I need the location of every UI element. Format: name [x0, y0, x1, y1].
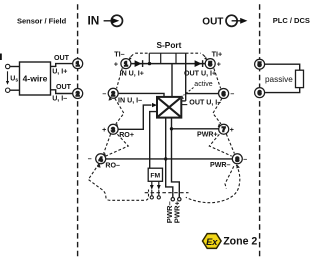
socket contact right pin: [178, 198, 181, 201]
dashed option 5-6: [214, 68, 221, 88]
supply terminal circle bottom: [6, 88, 10, 92]
stub converter right: [181, 104, 187, 106]
TI+ arrow: [203, 54, 208, 60]
svg-text:OUT U, I–: OUT U, I–: [189, 99, 221, 107]
svg-text:OUT: OUT: [56, 83, 72, 91]
arrow hook into terminal 2: [109, 97, 113, 101]
terminal circle module 5: [205, 59, 215, 69]
svg-text:4-wire: 4-wire: [23, 74, 48, 84]
diode D1: [135, 60, 143, 67]
svg-text:+: +: [217, 61, 221, 68]
svg-text:5: 5: [208, 61, 212, 68]
dashed option 8 to rail: [186, 165, 240, 203]
dashed option 1-2: [117, 68, 123, 88]
svg-text:OUT: OUT: [202, 16, 223, 27]
terminal circle module 7: [219, 124, 229, 134]
wire converter bottom right pin: [172, 118, 180, 198]
svg-text:passive: passive: [265, 75, 293, 84]
terminal circle module 6: [219, 89, 229, 99]
svg-text:5: 5: [258, 62, 262, 69]
junction dot PWR+: [170, 127, 173, 130]
svg-text:RO+: RO+: [119, 131, 134, 139]
svg-text:s: s: [15, 77, 18, 83]
wire converter lower left to FM: [150, 112, 157, 169]
svg-text:RO–: RO–: [105, 161, 120, 169]
svg-text:+: +: [230, 127, 234, 134]
FM leg left: [150, 181, 154, 199]
terminal circle module 2: [108, 88, 118, 98]
wire RO- / PWR- row: [106, 158, 232, 160]
svg-text:S-Port: S-Port: [157, 40, 182, 50]
svg-text:8: 8: [235, 156, 239, 163]
arrow hook into terminal 7: [218, 123, 222, 127]
TI+ dashed lead: [186, 52, 201, 54]
svg-text:6: 6: [258, 90, 262, 97]
dashed option 8 inner: [225, 166, 234, 188]
svg-text:1: 1: [124, 61, 128, 68]
svg-text:–: –: [102, 91, 106, 98]
svg-text:4: 4: [99, 156, 103, 163]
wire supply top to box: [10, 66, 20, 68]
svg-text:–: –: [88, 156, 92, 163]
PLC loop wire bottom: [265, 88, 300, 93]
svg-text:2: 2: [76, 91, 80, 98]
wire output riser: [181, 53, 185, 101]
arrow hook into terminal 6: [218, 89, 222, 93]
supply terminal circle top: [6, 64, 10, 68]
PLC loop wire top: [265, 64, 300, 70]
4-wire source box: [20, 62, 51, 95]
wire to terminal 6: [186, 93, 219, 95]
dashed option 3-4 direct: [104, 134, 111, 154]
wire box to terminal 2 field: [51, 90, 73, 94]
arrow into converter left: [152, 103, 157, 107]
svg-text:TI–: TI–: [114, 50, 124, 59]
S-Port bracket: [149, 53, 185, 63]
svg-text:6: 6: [222, 91, 226, 98]
Ex hexagon badge: [203, 234, 222, 249]
dashed option 2-3: [115, 98, 124, 124]
zone boundary dashed line left: [77, 4, 79, 258]
svg-text:3: 3: [111, 127, 115, 134]
svg-text:OUT: OUT: [54, 54, 70, 62]
OUT icon: [226, 15, 247, 26]
TI- dashed lead: [135, 52, 149, 54]
FM leg right: [157, 181, 161, 199]
svg-text:+: +: [114, 61, 118, 68]
svg-text:IN: IN: [88, 13, 100, 27]
wire supply bottom to box: [10, 89, 20, 91]
svg-text:–: –: [243, 156, 247, 163]
socket contact left pin: [171, 198, 174, 201]
edge mark top-left: [0, 54, 2, 61]
converter box U1: [157, 97, 181, 118]
junction dot: [148, 62, 151, 65]
terminal circle PLC 5: [255, 59, 265, 69]
FM box: [148, 168, 162, 181]
arrow hook into terminal 3: [115, 123, 119, 127]
terminal circle module 4: [96, 154, 106, 164]
terminal circle PLC 6: [255, 88, 265, 98]
terminal circle module 8: [232, 154, 242, 164]
svg-text:Sensor / Field: Sensor / Field: [17, 16, 67, 25]
svg-text:Ex: Ex: [206, 237, 218, 247]
active pointer arrowhead: [180, 95, 184, 99]
Us arrow: [6, 71, 9, 85]
svg-text:U, I+: U, I+: [52, 67, 67, 75]
svg-text:1: 1: [76, 61, 80, 68]
wire box to terminal 1 field: [51, 64, 73, 67]
active pointer dashed: [184, 88, 194, 96]
svg-text:IN U, I+: IN U, I+: [120, 70, 144, 78]
terminal circle module 3: [108, 124, 118, 134]
terminal circle field 1: [73, 59, 83, 69]
TI- arrow: [129, 54, 134, 60]
svg-text:+: +: [102, 127, 106, 134]
wire input feed to converter: [171, 64, 173, 97]
dashed option 7-8 direct: [226, 134, 234, 154]
svg-text:PWR–: PWR–: [210, 161, 231, 169]
dashed option 3-4 bulge: [106, 134, 129, 156]
svg-text:Zone 2: Zone 2: [223, 235, 257, 247]
svg-text:U, I–: U, I–: [52, 95, 67, 103]
svg-text:7: 7: [222, 127, 226, 134]
svg-text:FM: FM: [150, 173, 160, 180]
IN icon: [104, 15, 123, 26]
wire terminal 2 to converter: [118, 93, 164, 97]
svg-text:active: active: [194, 81, 212, 88]
dashed option 6-7: [213, 98, 222, 124]
diode D2: [195, 60, 203, 67]
arrow hook into terminal 4 lower: [97, 164, 101, 168]
wire PWR+ to terminal 7: [172, 128, 219, 130]
zone boundary dashed line right: [259, 4, 261, 258]
svg-text:–: –: [230, 91, 234, 98]
main rail module top: [131, 63, 205, 65]
svg-text:TI+: TI+: [212, 50, 223, 59]
load resistor: [296, 70, 304, 87]
arrow hook into terminal 8: [236, 165, 240, 169]
svg-text:PWR+: PWR+: [197, 131, 218, 139]
svg-text:PWR+: PWR+: [172, 200, 181, 223]
svg-text:PLC / DCS: PLC / DCS: [273, 16, 310, 25]
wire RO+ riser: [118, 105, 151, 129]
svg-text:OUT U, I+: OUT U, I+: [184, 70, 216, 78]
junction dot PWR-: [164, 157, 167, 160]
terminal circle field 2: [73, 89, 83, 99]
dashed option 4 to rail: [88, 164, 148, 200]
terminal circle module 1: [121, 59, 131, 69]
wire converter bottom left pin: [166, 118, 173, 198]
arrow hook into terminal 4: [102, 153, 106, 157]
DIN rail dashed line: [145, 192, 189, 194]
svg-text:2: 2: [111, 91, 115, 98]
dashed option 7-8 bulge: [209, 134, 231, 156]
svg-text:IN U, I–: IN U, I–: [118, 97, 142, 105]
